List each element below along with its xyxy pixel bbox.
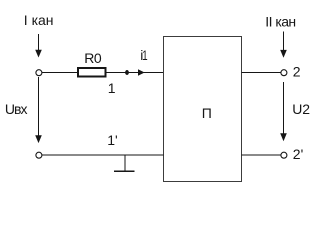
svg-text:Uвх: Uвх xyxy=(5,101,28,117)
four-terminal network box П xyxy=(164,37,242,182)
wire terminal1 to resistor xyxy=(42,72,78,74)
svg-text:I кан: I кан xyxy=(24,12,54,28)
wire terminal 1' to box xyxy=(42,154,164,156)
voltage Uвх arrow (terminal 1 down to 1') xyxy=(35,77,42,143)
junction dot xyxy=(125,70,129,75)
svg-text:II кан: II кан xyxy=(265,14,295,30)
svg-text:1': 1' xyxy=(107,132,117,148)
terminal 1 xyxy=(36,70,42,76)
svg-text:1: 1 xyxy=(108,80,116,96)
wire box to terminal 2 xyxy=(242,72,281,74)
current i1 arrowhead xyxy=(138,69,145,75)
voltage U2 arrow (terminal 2 down to 2') xyxy=(280,82,287,141)
terminal 1' xyxy=(36,152,42,158)
terminal 2' xyxy=(281,152,287,158)
svg-text:R0: R0 xyxy=(84,50,102,66)
current arrow channel II (into terminal 2) xyxy=(280,32,287,58)
svg-text:2: 2 xyxy=(293,64,301,80)
resistor R0 xyxy=(78,68,106,77)
svg-text:U2: U2 xyxy=(292,101,310,117)
svg-text:П: П xyxy=(202,105,212,121)
current arrow channel I (into terminal 1) xyxy=(35,34,42,58)
ground xyxy=(114,155,135,171)
wire box to terminal 2' xyxy=(242,154,281,156)
wire resistor to box xyxy=(107,72,164,74)
svg-text:1: 1 xyxy=(142,47,148,63)
terminal 2 xyxy=(281,70,287,76)
svg-text:2': 2' xyxy=(293,146,303,162)
